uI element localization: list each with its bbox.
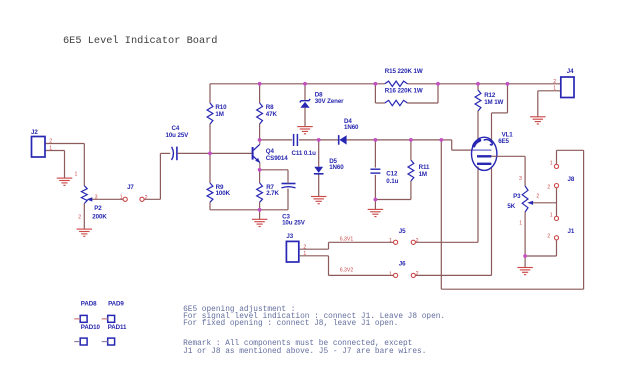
svg-text:0.1u: 0.1u	[386, 178, 398, 185]
svg-text:1: 1	[49, 145, 52, 151]
svg-text:PAD9: PAD9	[108, 301, 124, 308]
svg-text:10u 25V: 10u 25V	[166, 132, 190, 139]
svg-text:R16 220K 1W: R16 220K 1W	[385, 87, 423, 94]
svg-text:2: 2	[547, 185, 550, 191]
svg-text:P2: P2	[94, 205, 102, 212]
svg-text:1: 1	[550, 160, 553, 166]
svg-text:1M: 1M	[215, 111, 223, 118]
svg-text:6.3V2: 6.3V2	[340, 267, 354, 273]
svg-text:2: 2	[49, 139, 52, 145]
svg-text:1: 1	[389, 271, 392, 277]
svg-text:1: 1	[553, 85, 556, 91]
svg-text:J6: J6	[399, 260, 406, 267]
svg-text:3: 3	[95, 194, 98, 200]
svg-text:J4: J4	[567, 68, 574, 75]
svg-text:J1: J1	[568, 228, 575, 235]
svg-text:1N60: 1N60	[344, 124, 359, 131]
svg-text:1: 1	[120, 195, 123, 201]
svg-text:CS9014: CS9014	[266, 155, 288, 162]
svg-text:C11 0.1u: C11 0.1u	[292, 150, 317, 157]
svg-text:1M 1W: 1M 1W	[484, 99, 503, 106]
svg-text:1: 1	[75, 171, 78, 177]
svg-text:PAD8: PAD8	[81, 301, 97, 308]
svg-text:2: 2	[547, 234, 550, 240]
svg-text:J8: J8	[568, 176, 575, 183]
svg-text:J2: J2	[31, 129, 38, 136]
svg-text:30V Zener: 30V Zener	[315, 98, 344, 105]
svg-text:1: 1	[303, 251, 306, 257]
svg-text:2: 2	[78, 214, 81, 220]
svg-text:P3: P3	[513, 193, 521, 200]
svg-text:2: 2	[553, 79, 556, 85]
svg-text:PAD10: PAD10	[81, 324, 101, 331]
svg-text:C12: C12	[386, 170, 398, 177]
svg-text:R15 220K 1W: R15 220K 1W	[385, 68, 423, 75]
svg-text:J5: J5	[399, 228, 406, 235]
svg-text:1N60: 1N60	[329, 164, 344, 171]
svg-text:47K: 47K	[266, 111, 278, 118]
svg-text:100K: 100K	[216, 190, 231, 197]
svg-text:10u 25V: 10u 25V	[282, 220, 306, 227]
svg-text:1: 1	[389, 238, 392, 244]
svg-text:3: 3	[519, 176, 522, 182]
svg-text:2: 2	[303, 245, 306, 251]
svg-text:2: 2	[145, 195, 148, 201]
svg-text:1M: 1M	[419, 171, 427, 178]
svg-text:5K: 5K	[507, 203, 515, 210]
svg-text:6E5: 6E5	[498, 138, 509, 145]
svg-text:2: 2	[416, 271, 419, 277]
svg-text:2.7K: 2.7K	[266, 190, 279, 197]
svg-text:1: 1	[519, 220, 522, 226]
svg-text:2: 2	[416, 238, 419, 244]
svg-text:J7: J7	[127, 184, 134, 191]
svg-text:J3: J3	[286, 233, 293, 240]
svg-text:2: 2	[536, 194, 539, 200]
svg-text:C4: C4	[172, 125, 180, 132]
svg-text:1: 1	[550, 212, 553, 218]
svg-text:200K: 200K	[92, 214, 107, 221]
svg-text:PAD11: PAD11	[108, 324, 127, 331]
svg-text:6.3V1: 6.3V1	[340, 236, 354, 242]
